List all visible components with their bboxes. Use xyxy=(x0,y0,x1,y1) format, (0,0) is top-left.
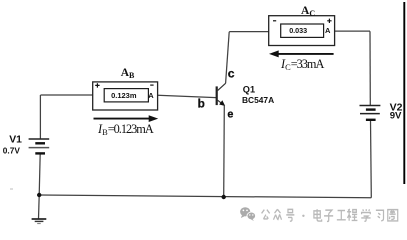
svg-text:BC547A: BC547A xyxy=(242,95,274,105)
svg-text:Q1: Q1 xyxy=(243,84,255,94)
svg-text:V1: V1 xyxy=(9,135,22,146)
svg-text:0.123m: 0.123m xyxy=(111,91,137,100)
svg-text:A: A xyxy=(148,91,154,100)
svg-text:0.7V: 0.7V xyxy=(3,146,21,156)
svg-text:b: b xyxy=(198,97,205,111)
svg-text:9V: 9V xyxy=(390,111,402,122)
svg-text:A: A xyxy=(325,26,331,35)
svg-text:e: e xyxy=(227,108,233,120)
svg-text:c: c xyxy=(228,66,235,80)
svg-text:0.033: 0.033 xyxy=(289,26,307,35)
